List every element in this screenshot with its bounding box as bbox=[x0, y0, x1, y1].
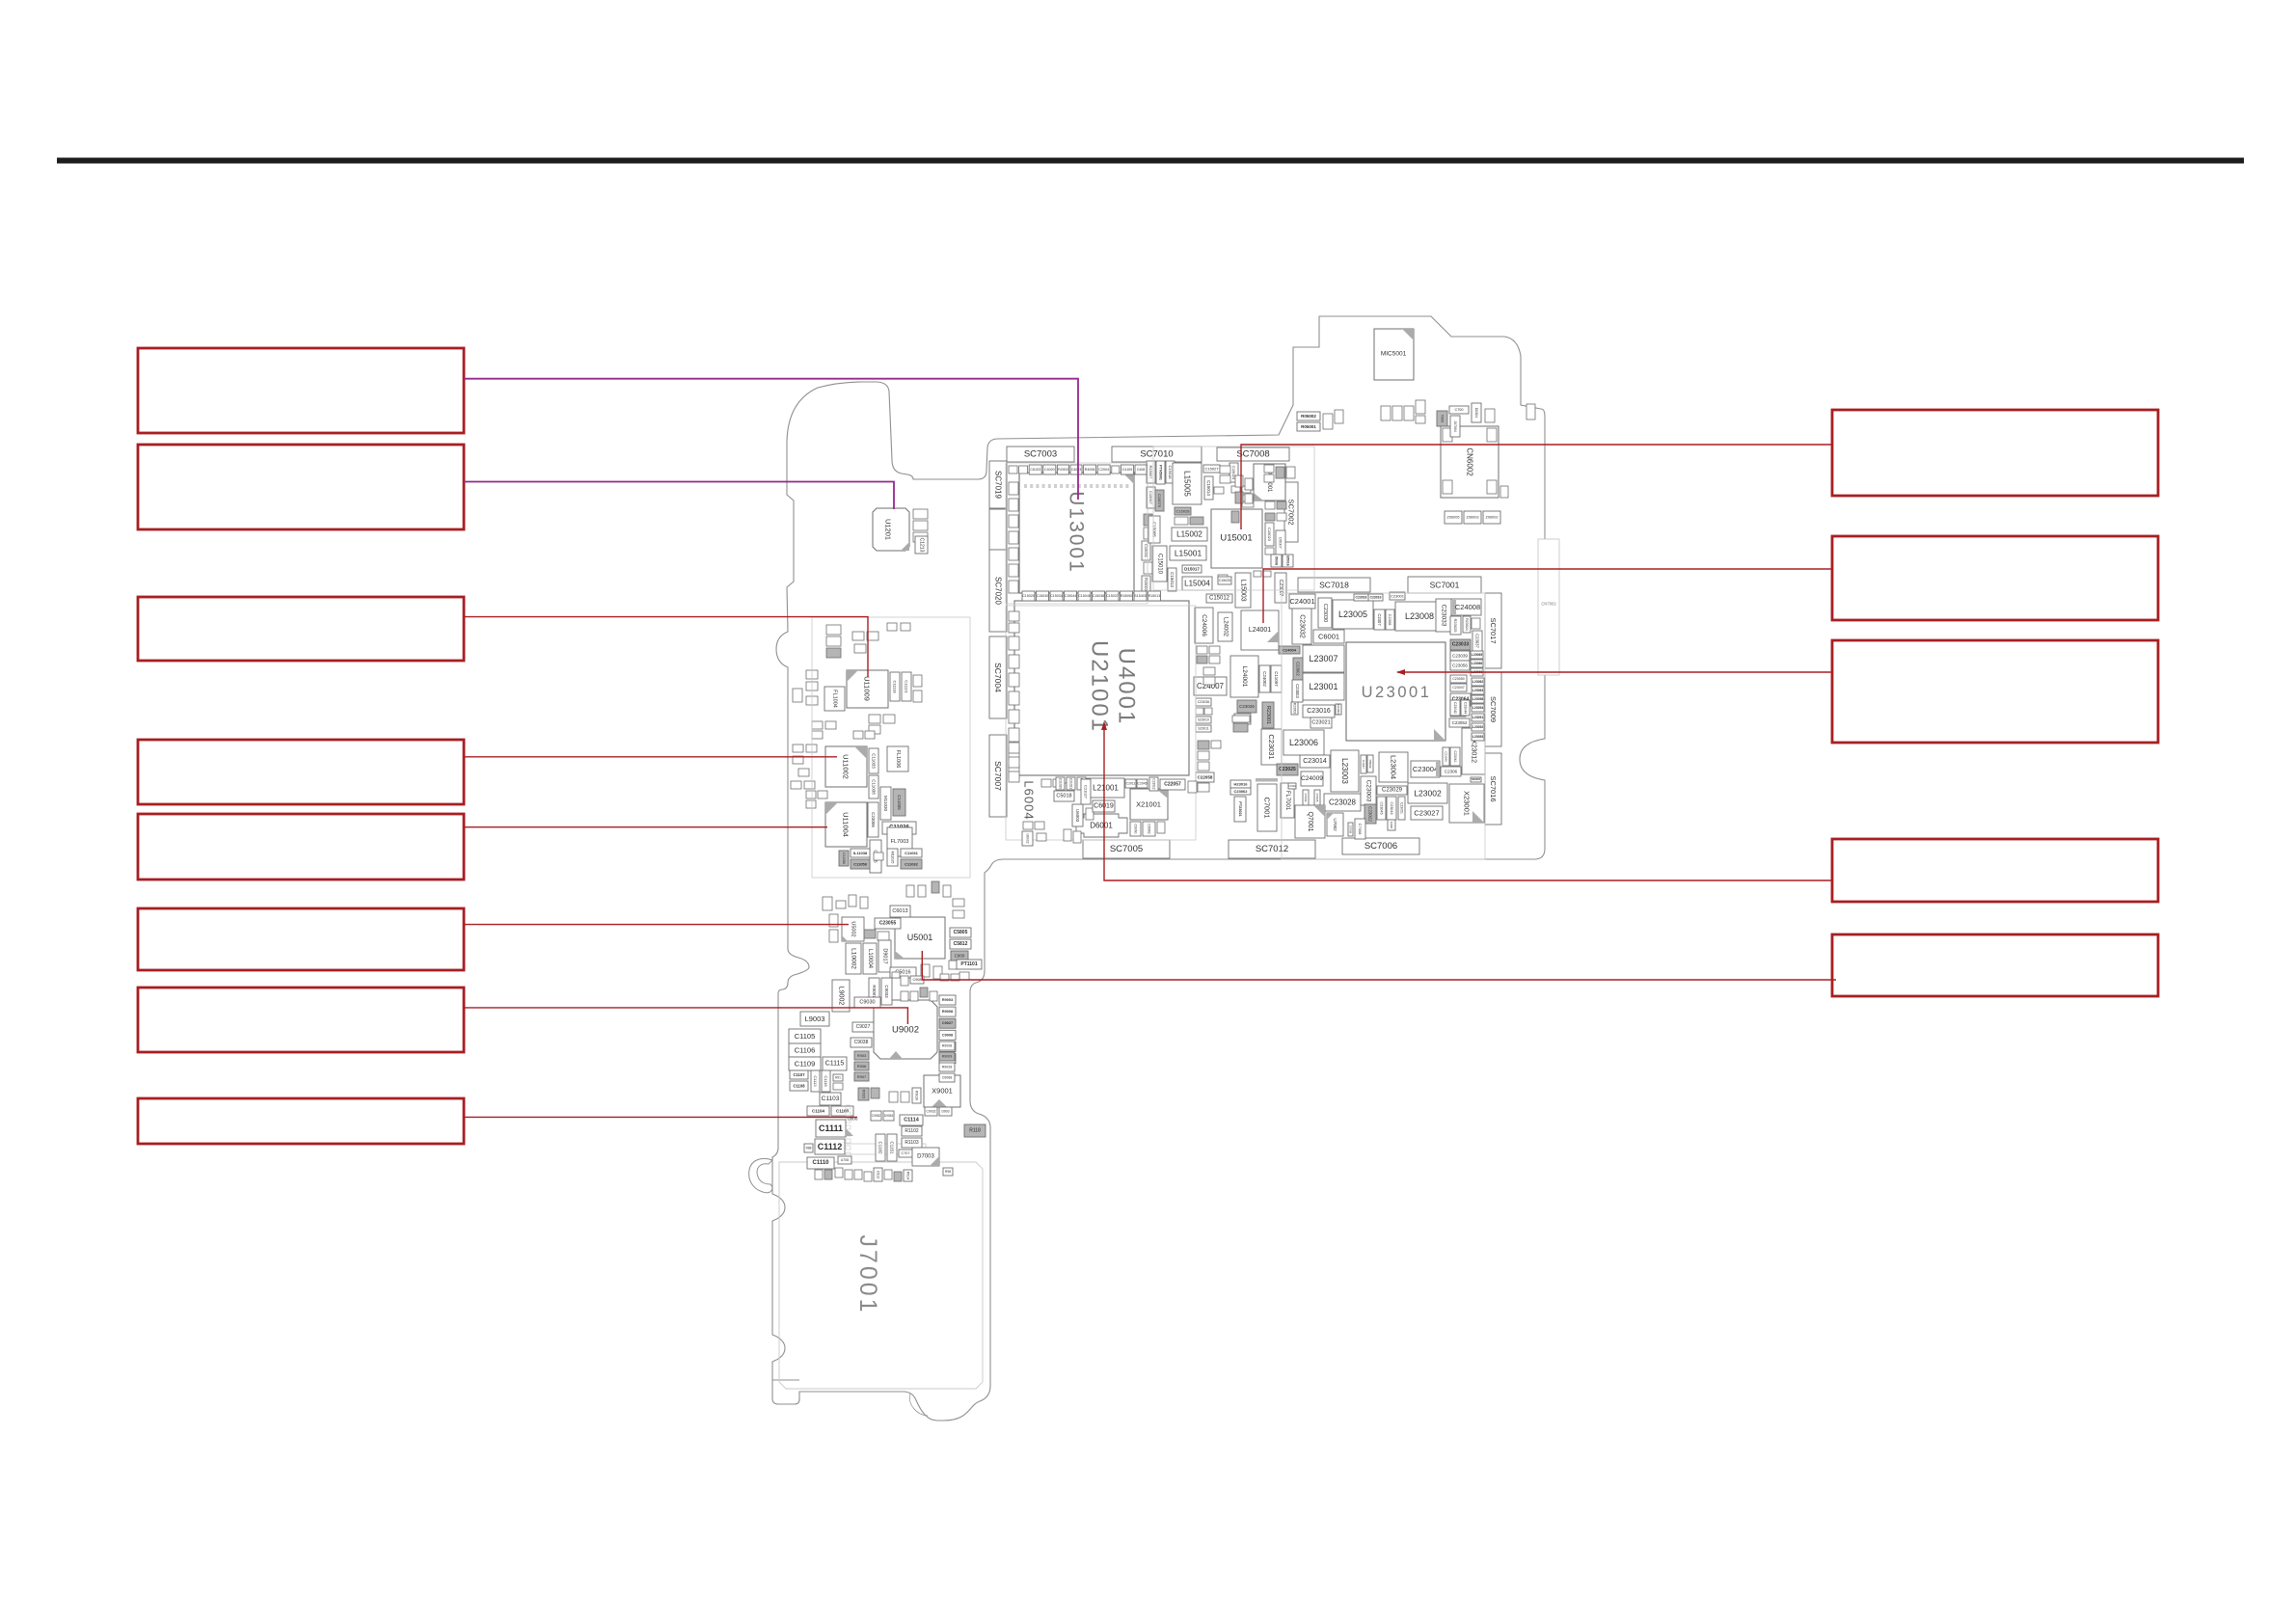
small parts above U5001 bbox=[823, 881, 951, 910]
svg-text:C7001: C7001 bbox=[1263, 797, 1272, 818]
svg-text:R91: R91 bbox=[835, 1076, 841, 1080]
capacitor C9027b bbox=[852, 1022, 874, 1032]
small parts under U11009 bbox=[869, 715, 895, 734]
svg-text:C23028: C23028 bbox=[1329, 798, 1357, 807]
leader line R2 to L24001 bbox=[1263, 569, 1832, 623]
header rule bar bbox=[57, 158, 2244, 164]
svg-text:R23025: R23025 bbox=[1453, 618, 1458, 633]
svg-text:C1110: C1110 bbox=[812, 1160, 829, 1166]
capacitor C707 bbox=[899, 1150, 912, 1157]
board bottom chin inner line bbox=[909, 1394, 928, 1416]
callout box L5 bbox=[138, 814, 464, 880]
svg-text:C1115: C1115 bbox=[825, 1061, 845, 1068]
svg-text:D903: D903 bbox=[941, 1110, 949, 1114]
small parts above U15001 left bbox=[1231, 486, 1251, 501]
svg-text:C1106: C1106 bbox=[795, 1046, 816, 1055]
svg-text:U11002: U11002 bbox=[842, 754, 851, 779]
svg-text:U6002: U6002 bbox=[1026, 834, 1030, 844]
svg-text:L23052: L23052 bbox=[1472, 725, 1484, 729]
svg-text:L23001: L23001 bbox=[1309, 682, 1337, 691]
capacitor C1104 bbox=[807, 1106, 829, 1116]
crystal X23012 bbox=[1462, 728, 1485, 774]
svg-text:C2308: C2308 bbox=[1388, 614, 1392, 627]
svg-text:C5812: C5812 bbox=[954, 941, 968, 947]
svg-text:X23001: X23001 bbox=[1463, 791, 1472, 816]
leader line L2 (magenta) to U1201 bbox=[464, 482, 894, 510]
resistor R05002 bbox=[1297, 412, 1320, 420]
capacitor C23029 bbox=[1377, 786, 1407, 795]
svg-text:U9002: U9002 bbox=[892, 1025, 919, 1036]
svg-text:R15050: R15050 bbox=[1121, 594, 1133, 598]
capacitor C15027 bbox=[1203, 465, 1220, 473]
small parts above U11009 bbox=[826, 623, 910, 658]
parts left of X9001 bbox=[858, 1088, 921, 1103]
svg-text:L15004: L15004 bbox=[1184, 580, 1210, 588]
small parts above U15001 bbox=[1214, 487, 1254, 523]
callout box L7 bbox=[138, 988, 464, 1052]
capacitor C1108 bbox=[790, 1081, 808, 1091]
svg-text:C15014: C15014 bbox=[1206, 480, 1211, 496]
capacitor C23003 small bbox=[1292, 680, 1303, 702]
capacitor C2307 bbox=[1374, 609, 1385, 630]
shield label SC7008 bbox=[1217, 447, 1289, 461]
svg-text:C23001: C23001 bbox=[1391, 594, 1405, 599]
capacitor row under U13001 bbox=[1022, 591, 1161, 601]
svg-text:R9009: R9009 bbox=[942, 1055, 953, 1059]
svg-text:C906: C906 bbox=[1390, 822, 1393, 829]
shield region center bbox=[1006, 606, 1196, 840]
shield strip blank bbox=[989, 509, 1007, 550]
capacitor C6013 bbox=[890, 906, 910, 917]
svg-text:C9008: C9008 bbox=[942, 1033, 953, 1037]
parts above X9001 and D7003 bbox=[871, 1107, 952, 1121]
svg-text:R23003: R23003 bbox=[1293, 703, 1297, 714]
capacitor C15028 bbox=[1175, 507, 1191, 515]
svg-text:R05001: R05001 bbox=[1301, 424, 1316, 429]
svg-text:X23012: X23012 bbox=[1471, 740, 1477, 763]
capacitor C1047 bbox=[1361, 755, 1366, 773]
capacitor C11036 bbox=[882, 822, 916, 834]
capacitor C23040 rot bbox=[1443, 747, 1449, 766]
svg-text:C24004: C24004 bbox=[1283, 648, 1297, 653]
capacitor C1105 bbox=[789, 1029, 821, 1043]
capacitor C2306 bbox=[1441, 767, 1461, 776]
svg-text:C11121: C11121 bbox=[905, 680, 909, 693]
filter FL7003 bbox=[887, 827, 912, 856]
svg-text:C23031: C23031 bbox=[1267, 734, 1276, 759]
svg-text:SC7020: SC7020 bbox=[994, 577, 1003, 605]
IC MIC5001 bbox=[1374, 329, 1414, 380]
svg-text:C23003: C23003 bbox=[1295, 684, 1300, 698]
shield strip SC7016 bbox=[1485, 753, 1501, 825]
shield strip SC7020 bbox=[989, 550, 1007, 632]
small parts under C24007 bbox=[1196, 698, 1212, 732]
svg-text:PTN5001: PTN5001 bbox=[1159, 465, 1163, 480]
svg-text:C23033: C23033 bbox=[1452, 642, 1470, 648]
tiny pair right of C1116 bbox=[833, 1074, 843, 1090]
shield label SC7010 bbox=[1112, 447, 1202, 462]
svg-text:C4109: C4109 bbox=[1122, 468, 1133, 472]
svg-text:L15005: L15005 bbox=[1183, 471, 1192, 497]
svg-text:C15030: C15030 bbox=[1037, 594, 1049, 598]
capacitor C23026 bbox=[1237, 700, 1256, 713]
svg-text:C15028: C15028 bbox=[1175, 509, 1190, 514]
small parts left of U11009 bbox=[793, 670, 836, 739]
svg-text:S23011: S23011 bbox=[1198, 727, 1209, 731]
shield label SC7018 bbox=[1298, 578, 1370, 592]
svg-text:D9053: D9053 bbox=[884, 1114, 894, 1118]
svg-text:L23004: L23004 bbox=[1390, 755, 1398, 779]
capacitor C7002 bbox=[1303, 790, 1309, 805]
svg-text:C15007: C15007 bbox=[1148, 491, 1153, 505]
shield label SC7005 bbox=[1083, 840, 1170, 858]
svg-text:R9026: R9026 bbox=[915, 1091, 919, 1100]
shield label SC7006 bbox=[1342, 838, 1419, 854]
resistor R23025 bbox=[1450, 616, 1461, 635]
svg-text:C15044: C15044 bbox=[1065, 594, 1077, 598]
svg-text:C23045: C23045 bbox=[1380, 801, 1384, 814]
svg-text:X9001: X9001 bbox=[932, 1087, 953, 1096]
svg-text:MIC5001: MIC5001 bbox=[1381, 351, 1407, 358]
capacitor C7025 bbox=[1314, 790, 1320, 805]
parts right of R05001 bbox=[1323, 410, 1343, 429]
capacitor C23031 bbox=[1261, 729, 1282, 765]
capacitor C23056 bbox=[1450, 661, 1470, 670]
svg-text:L23005: L23005 bbox=[1338, 609, 1367, 619]
IC U5001 bbox=[895, 917, 945, 959]
svg-text:C23022: C23022 bbox=[1368, 806, 1373, 822]
capacitor C15024 bbox=[1229, 463, 1238, 482]
svg-text:C23051: C23051 bbox=[1400, 802, 1404, 814]
svg-text:D6001: D6001 bbox=[1090, 822, 1113, 830]
svg-text:C15018: C15018 bbox=[1168, 465, 1173, 479]
svg-text:R88: R88 bbox=[806, 1147, 812, 1150]
capacitor C1115 bbox=[823, 1057, 847, 1070]
svg-text:C2004: C2004 bbox=[1098, 468, 1109, 472]
svg-text:R9007: R9007 bbox=[872, 985, 877, 998]
svg-text:L23008: L23008 bbox=[1405, 611, 1434, 621]
capacitor small under C23046 bbox=[1388, 820, 1395, 830]
component column right of U15001 bbox=[1265, 501, 1293, 567]
callout box L2 bbox=[138, 445, 464, 529]
svg-text:R906: R906 bbox=[857, 1064, 867, 1069]
inductor L9002 bbox=[832, 980, 850, 1012]
svg-text:C23030: C23030 bbox=[1322, 604, 1328, 622]
capacitor C24006 bbox=[1195, 608, 1213, 643]
tiny rot column above C5018 bbox=[1056, 777, 1086, 790]
svg-text:C11058: C11058 bbox=[853, 862, 868, 867]
IC U15001 bbox=[1211, 509, 1262, 568]
svg-text:C23002: C23002 bbox=[1296, 662, 1301, 676]
svg-text:U7002: U7002 bbox=[1333, 818, 1337, 831]
svg-text:C23026: C23026 bbox=[1239, 704, 1255, 709]
IC U5002 bbox=[842, 917, 864, 941]
capacitor C15014 bbox=[1204, 476, 1213, 500]
crystal X9001 bbox=[924, 1075, 960, 1107]
inductor L23003 bbox=[1331, 750, 1359, 792]
capacitor C23052 bbox=[1449, 718, 1470, 727]
svg-text:D0304: D0304 bbox=[1474, 408, 1478, 419]
svg-text:SC7006: SC7006 bbox=[1364, 841, 1397, 852]
svg-text:C2011: C2011 bbox=[1126, 782, 1136, 786]
svg-text:L23062: L23062 bbox=[1472, 680, 1484, 684]
resistor R1102 bbox=[902, 1126, 922, 1136]
capacitor C23001 bbox=[1390, 592, 1405, 600]
svg-text:C7025: C7025 bbox=[1315, 794, 1319, 802]
capacitor C15012 bbox=[1206, 594, 1232, 603]
parts right of U11009 bbox=[890, 672, 922, 702]
svg-text:C11035: C11035 bbox=[897, 795, 902, 810]
transistor Q7001 bbox=[1295, 805, 1325, 838]
svg-text:U1201: U1201 bbox=[884, 519, 893, 540]
svg-text:L24002: L24002 bbox=[1223, 617, 1229, 637]
svg-text:C2045: C2045 bbox=[1138, 782, 1148, 786]
small parts below U15001 bbox=[1218, 571, 1271, 584]
inductor L15001 bbox=[1170, 546, 1206, 560]
svg-text:C24008: C24008 bbox=[1455, 603, 1480, 611]
leader line R1 to U15001 bbox=[1241, 445, 1832, 529]
capacitor C23002 bbox=[1293, 658, 1303, 680]
svg-text:C9027: C9027 bbox=[856, 1024, 871, 1030]
capacitor C1102 bbox=[876, 1134, 885, 1161]
svg-text:D5009: D5009 bbox=[1368, 760, 1372, 769]
svg-text:C913: C913 bbox=[877, 1171, 880, 1178]
capacitor C24007 bbox=[1194, 677, 1227, 695]
component PT23021 bbox=[1234, 797, 1246, 822]
inductor L15002 bbox=[1172, 528, 1207, 541]
svg-text:H23016: H23016 bbox=[1233, 782, 1248, 787]
svg-text:R9023: R9023 bbox=[862, 1090, 866, 1099]
parts right of C5016 bbox=[921, 961, 960, 979]
svg-text:SC7007: SC7007 bbox=[993, 761, 1003, 791]
component U6003 bbox=[1072, 804, 1083, 826]
svg-text:U5001: U5001 bbox=[907, 933, 933, 942]
svg-text:L7002: L7002 bbox=[1288, 784, 1296, 788]
inductor L24001 (body) bbox=[1230, 656, 1258, 697]
svg-text:U6003: U6003 bbox=[1075, 809, 1080, 823]
callout box R5 bbox=[1832, 934, 2158, 996]
svg-text:C4003: C4003 bbox=[1071, 468, 1082, 472]
U800 fold bbox=[846, 1128, 853, 1136]
capacitor C24008 bbox=[1451, 599, 1481, 615]
resistor R23003 bbox=[1291, 702, 1298, 715]
svg-text:U13001: U13001 bbox=[1066, 491, 1088, 574]
C23xxx column lower bbox=[1450, 675, 1471, 717]
capacitor C5016 bbox=[890, 967, 916, 978]
callout box L6 bbox=[138, 908, 464, 970]
capacitor C15013 bbox=[1168, 568, 1176, 591]
svg-text:C1103: C1103 bbox=[822, 1096, 840, 1102]
callout box R4 bbox=[1832, 839, 2158, 902]
svg-text:C2306: C2306 bbox=[1445, 770, 1458, 774]
shield strip SC7004 bbox=[989, 636, 1007, 718]
svg-text:T009: T009 bbox=[1441, 415, 1445, 422]
inductor L15004 bbox=[1182, 577, 1212, 590]
svg-text:SC7017: SC7017 bbox=[1489, 617, 1498, 643]
svg-text:C1113: C1113 bbox=[813, 1075, 818, 1087]
shield label SC7003 bbox=[1007, 447, 1074, 462]
svg-text:C908: C908 bbox=[912, 978, 921, 982]
resistor R05001 bbox=[1297, 422, 1320, 431]
inductor L21001 bbox=[1087, 778, 1124, 798]
inductor L23005 bbox=[1333, 600, 1373, 629]
svg-text:SC7001: SC7001 bbox=[1430, 581, 1460, 590]
svg-text:C23027: C23027 bbox=[1414, 809, 1439, 818]
svg-text:SC7003: SC7003 bbox=[1024, 449, 1057, 460]
capacitor C23051 bbox=[1398, 797, 1405, 820]
capacitor C23028 bbox=[1324, 794, 1361, 811]
svg-text:C1116: C1116 bbox=[824, 1075, 828, 1087]
capacitor D5009 bbox=[1367, 755, 1373, 772]
svg-text:L10002: L10002 bbox=[851, 948, 857, 969]
capacitor C23032 bbox=[1292, 609, 1311, 644]
capacitor C23014 bbox=[1300, 755, 1330, 768]
svg-text:FL1004: FL1004 bbox=[832, 690, 838, 708]
inductor L23006 bbox=[1283, 730, 1324, 755]
leader line L3 to U11009 bbox=[464, 617, 868, 677]
capacitor C5018 bbox=[1054, 791, 1074, 801]
capacitor C24009 bbox=[1301, 771, 1323, 786]
svg-text:C1114: C1114 bbox=[904, 1118, 920, 1123]
component column right of U13001 bbox=[1142, 461, 1175, 593]
svg-text:D15017: D15017 bbox=[1184, 567, 1200, 572]
capacitor C23025 bbox=[1277, 764, 1298, 775]
svg-text:C21027: C21027 bbox=[1084, 785, 1089, 799]
svg-text:PT23021: PT23021 bbox=[1238, 801, 1242, 816]
svg-text:L23003: L23003 bbox=[1340, 758, 1349, 784]
component Z06005 bbox=[1445, 511, 1462, 524]
svg-text:L6004: L6004 bbox=[1022, 780, 1037, 820]
capacitor D15017 bbox=[1182, 565, 1202, 573]
svg-text:L24001: L24001 bbox=[1241, 666, 1248, 688]
svg-text:C408: C408 bbox=[1137, 468, 1146, 472]
capacitor C23030 bbox=[1318, 598, 1332, 628]
capacitor C23022 bbox=[1364, 804, 1376, 824]
capacitor C23003 rot bbox=[1361, 776, 1376, 805]
capacitor C24004 bbox=[1279, 646, 1300, 654]
capacitor C11097 bbox=[1271, 665, 1282, 692]
board outline bbox=[772, 316, 1545, 1421]
svg-text:C11033: C11033 bbox=[872, 753, 877, 769]
svg-text:C7008: C7008 bbox=[1349, 826, 1353, 834]
inductor L7002 bbox=[1288, 783, 1296, 789]
svg-text:J7001: J7001 bbox=[854, 1234, 881, 1314]
capacitor C1106 bbox=[789, 1043, 821, 1057]
svg-text:C23004: C23004 bbox=[1413, 765, 1438, 773]
svg-text:L10004: L10004 bbox=[867, 949, 873, 969]
svg-text:C11097: C11097 bbox=[1274, 671, 1279, 687]
capacitor C1110 bbox=[807, 1157, 834, 1169]
filter FL7001 bbox=[1281, 783, 1294, 818]
svg-text:SC7010: SC7010 bbox=[1140, 449, 1173, 460]
svg-text:C23014: C23014 bbox=[1303, 758, 1327, 765]
svg-text:U21001: U21001 bbox=[1087, 640, 1113, 733]
capacitor C9033 bbox=[881, 978, 892, 1005]
capacitor C11033 bbox=[869, 748, 878, 773]
svg-text:CN7002: CN7002 bbox=[1541, 602, 1556, 607]
svg-text:C1047: C1047 bbox=[1362, 760, 1365, 769]
parts left of U5002 bbox=[829, 914, 838, 942]
capacitor C23006b bbox=[868, 802, 878, 837]
diode D21001 bbox=[1234, 714, 1251, 724]
capacitor C1113 bbox=[811, 1070, 820, 1092]
capacitor C6045 bbox=[870, 840, 881, 873]
component column left of U13001 bbox=[1009, 482, 1018, 593]
svg-text:C707: C707 bbox=[901, 1151, 909, 1155]
svg-text:U5002: U5002 bbox=[851, 921, 856, 936]
parts between U13001 and X15001 bbox=[1220, 466, 1253, 503]
capacitor C24001 bbox=[1289, 594, 1315, 609]
svg-text:C24002: C24002 bbox=[1262, 671, 1267, 687]
shield region arm bbox=[812, 617, 970, 878]
leader line R5 to U5001 bbox=[922, 951, 1836, 980]
svg-text:C23050: C23050 bbox=[1452, 677, 1465, 681]
IC U1201 bbox=[873, 508, 909, 551]
crystal X23001 rot bbox=[1449, 784, 1484, 823]
svg-text:C23033: C23033 bbox=[1441, 605, 1447, 627]
svg-text:C23032: C23032 bbox=[1299, 614, 1306, 638]
bottom small parts row 1 bbox=[804, 1144, 852, 1179]
svg-text:C15023: C15023 bbox=[1267, 528, 1272, 542]
svg-text:C9052: C9052 bbox=[872, 1114, 881, 1118]
inductor L24001 bbox=[1241, 610, 1279, 650]
capacitor C1116 bbox=[822, 1070, 830, 1092]
svg-text:L23066: L23066 bbox=[1472, 662, 1483, 665]
svg-text:U11004: U11004 bbox=[842, 812, 851, 837]
capacitor C23045 bbox=[1377, 797, 1386, 820]
leader line L5 to U11004 bbox=[464, 826, 827, 828]
shield region U15001 bbox=[1153, 447, 1314, 590]
shield region U23001 bbox=[1282, 593, 1485, 859]
shield strip SC7019 bbox=[989, 461, 1007, 508]
svg-text:D9017: D9017 bbox=[882, 948, 888, 963]
inductor L23008 bbox=[1395, 602, 1444, 631]
svg-text:C9038: C9038 bbox=[854, 1040, 869, 1045]
svg-text:L24001: L24001 bbox=[1249, 627, 1271, 634]
svg-text:C23007: C23007 bbox=[1278, 580, 1283, 597]
svg-text:C6060: C6060 bbox=[1134, 825, 1138, 834]
C5805 C5812 column bbox=[950, 899, 971, 961]
leader line L4 to U11002 bbox=[464, 756, 837, 758]
svg-text:R4008: R4008 bbox=[1085, 468, 1095, 472]
svg-text:C9033: C9033 bbox=[884, 985, 889, 998]
svg-text:C11038: C11038 bbox=[872, 779, 877, 795]
capacitor C7D08 bbox=[1355, 819, 1365, 839]
shield strip SC7009 bbox=[1485, 672, 1501, 746]
leader line L7 to U9002 bbox=[464, 1008, 907, 1024]
part at right edge top bbox=[1526, 404, 1535, 420]
svg-text:C23019: C23019 bbox=[1370, 596, 1382, 600]
svg-text:J07004: J07004 bbox=[1453, 420, 1457, 432]
capacitor C15005 bbox=[1148, 516, 1160, 543]
svg-text:Z06003: Z06003 bbox=[1467, 516, 1479, 520]
svg-text:R914: R914 bbox=[906, 1172, 910, 1179]
parts below MIC5001 bbox=[1381, 400, 1425, 423]
svg-text:M11025: M11025 bbox=[891, 852, 895, 864]
svg-text:R903: R903 bbox=[857, 1053, 867, 1058]
parts right of D6001 bbox=[1130, 822, 1165, 836]
connector J7001 body bbox=[779, 1162, 983, 1389]
capacitor C23037 bbox=[1472, 631, 1482, 651]
svg-text:Q7001: Q7001 bbox=[1307, 811, 1313, 831]
svg-text:L23063: L23063 bbox=[1472, 689, 1484, 692]
svg-text:CN6002: CN6002 bbox=[1466, 447, 1474, 476]
svg-text:M11030: M11030 bbox=[883, 796, 888, 811]
component Z06002 bbox=[1483, 511, 1500, 524]
svg-text:SC7004: SC7004 bbox=[993, 663, 1003, 692]
resistor R1103 bbox=[902, 1138, 922, 1148]
pads above U11002 bbox=[853, 731, 875, 739]
